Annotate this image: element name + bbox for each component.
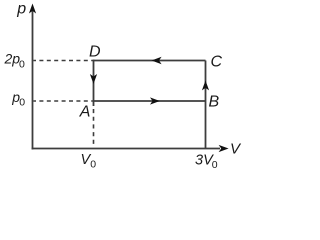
svg-text:2p: 2p	[4, 51, 21, 67]
svg-text:0: 0	[19, 59, 25, 71]
svg-text:p: p	[16, 0, 26, 17]
svg-text:C: C	[211, 53, 223, 70]
svg-text:D: D	[89, 43, 101, 60]
svg-text:V: V	[230, 141, 242, 158]
svg-text:B: B	[209, 93, 220, 110]
svg-text:A: A	[79, 103, 91, 120]
svg-text:0: 0	[90, 158, 96, 170]
svg-text:0: 0	[212, 159, 218, 171]
svg-text:0: 0	[19, 96, 25, 108]
